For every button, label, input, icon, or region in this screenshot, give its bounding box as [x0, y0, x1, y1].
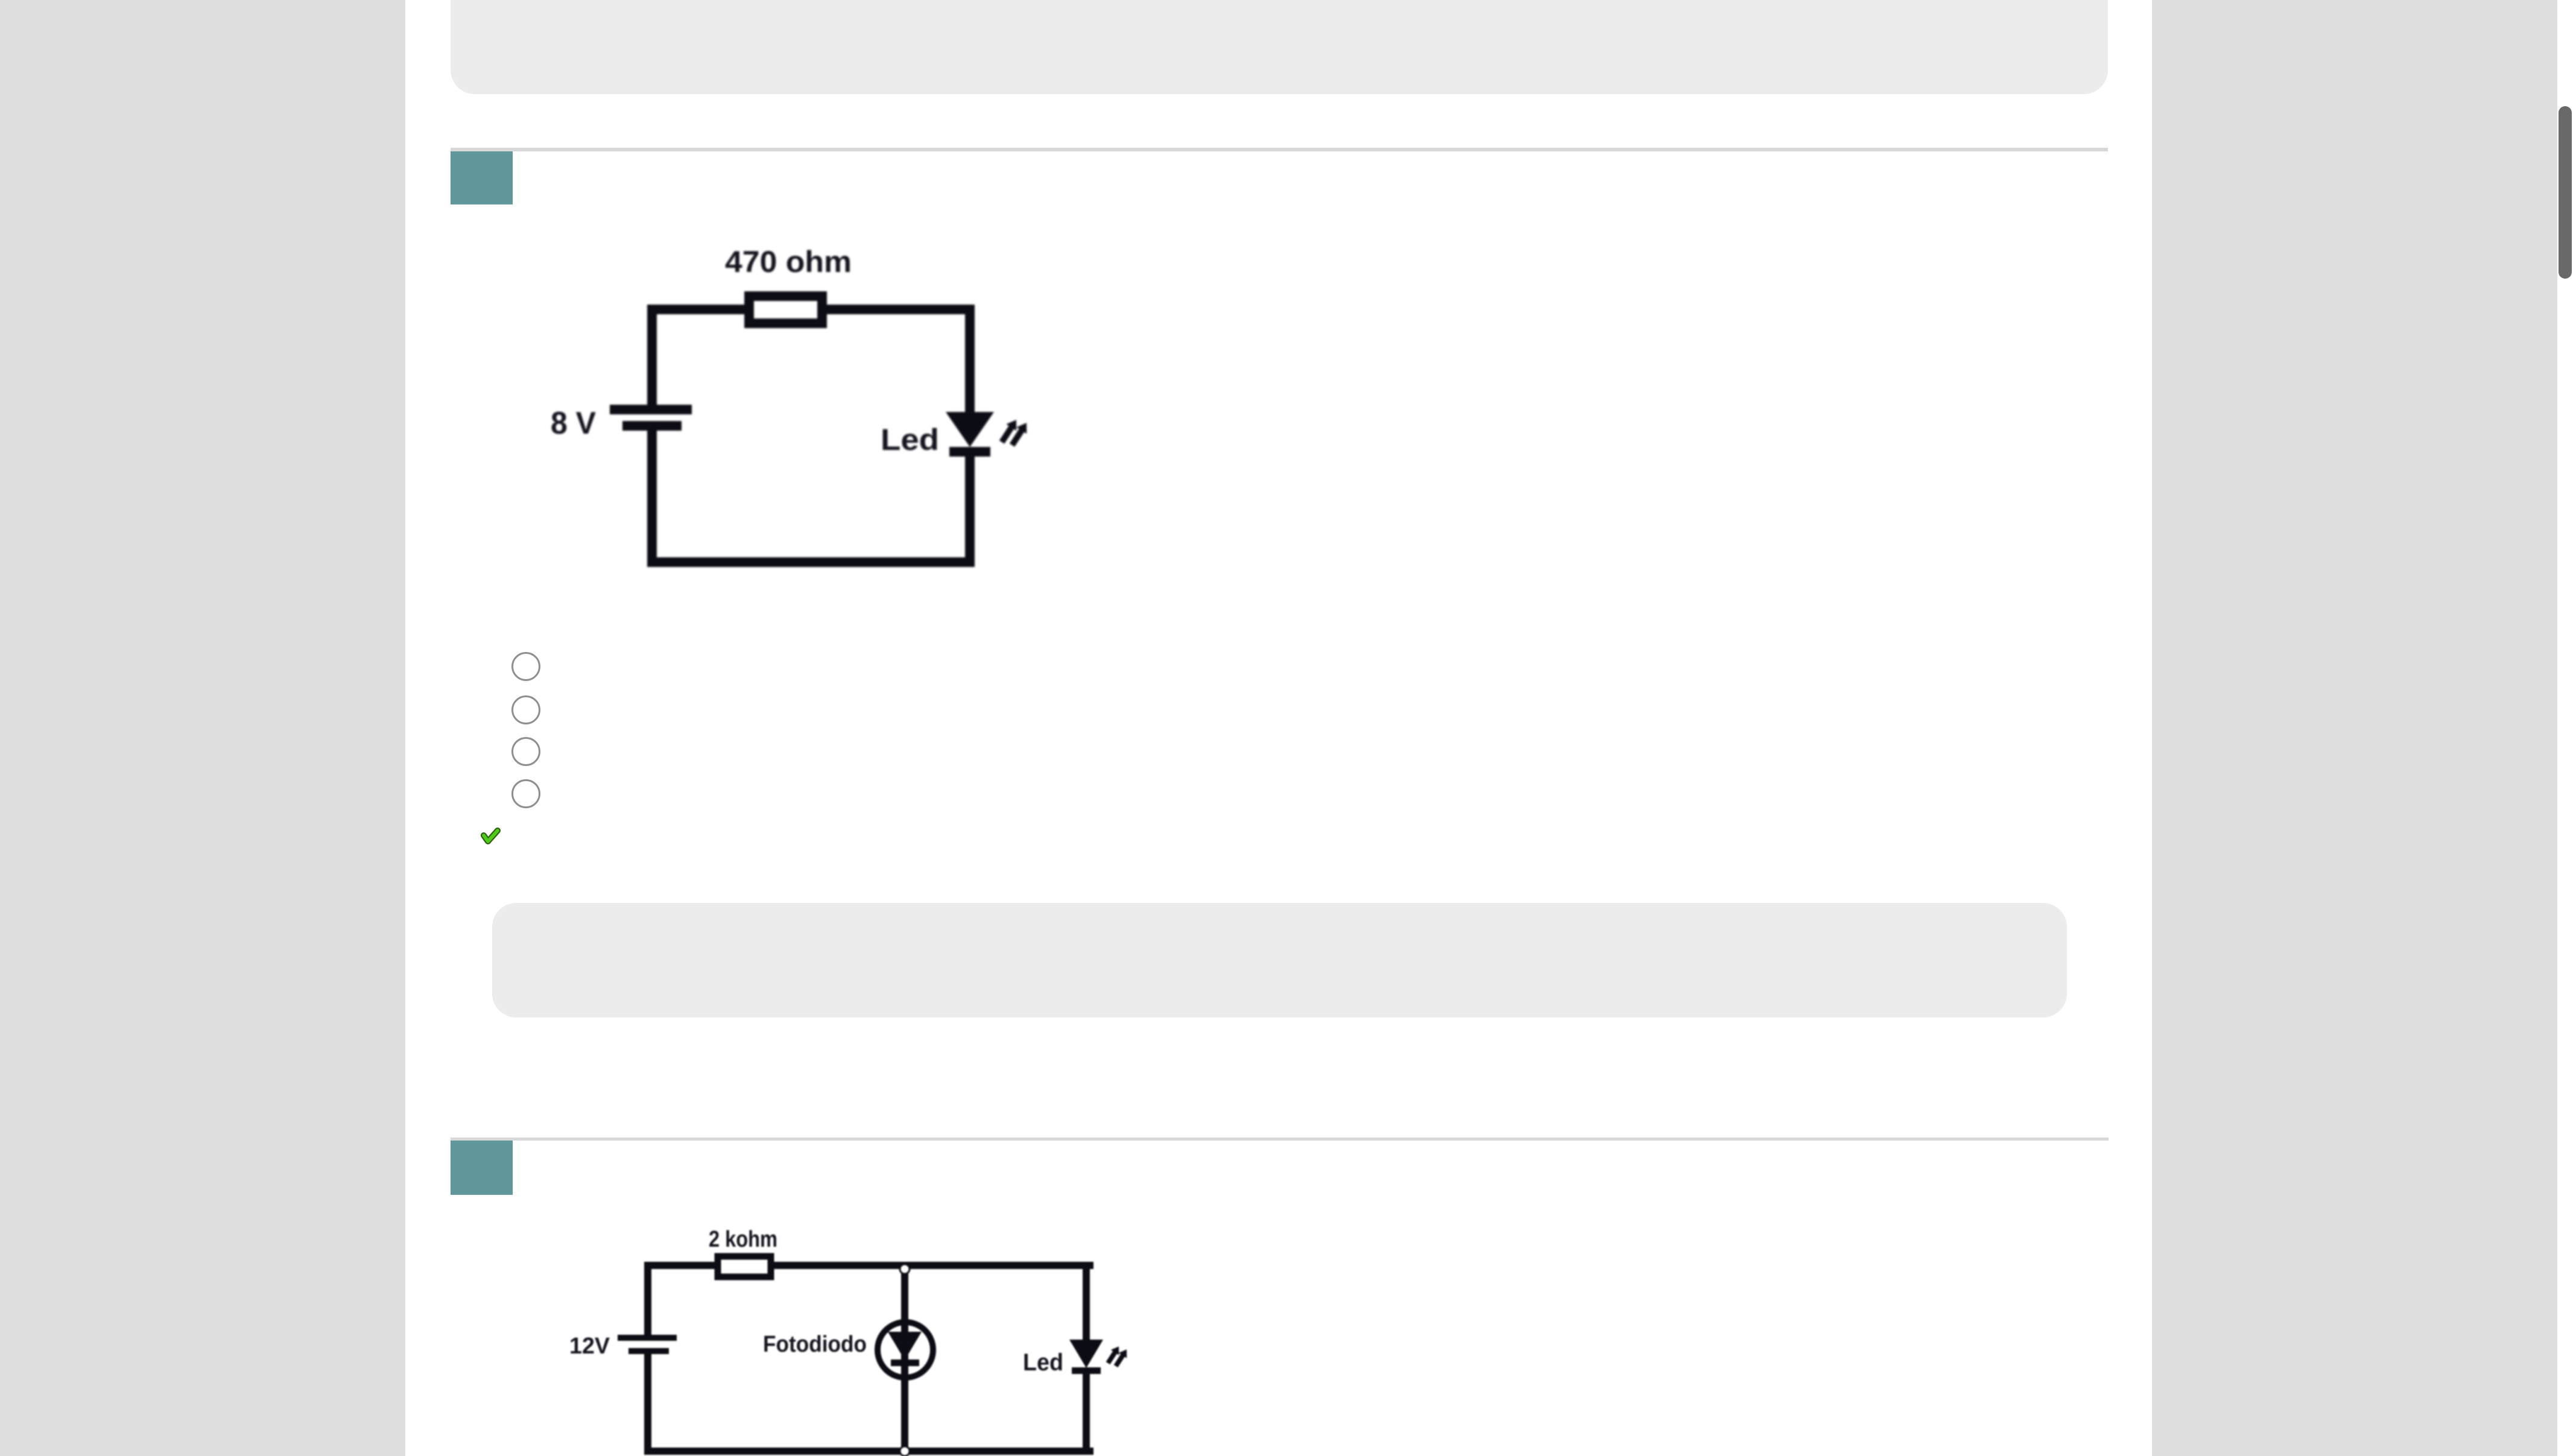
resistor 470 ohm	[749, 296, 822, 323]
photodiode circle	[878, 1322, 933, 1378]
svg-text:Led: Led	[881, 423, 939, 457]
svg-text:12V: 12V	[569, 1334, 610, 1359]
wire left lower	[647, 431, 657, 567]
circuit schematic 2	[561, 1218, 1164, 1456]
wire right upper	[1083, 1262, 1090, 1340]
svg-text:8 V: 8 V	[551, 406, 596, 441]
right gray gutter	[2152, 0, 2557, 1456]
teal question number square 2	[451, 1141, 513, 1195]
node junction top	[900, 1264, 910, 1274]
photodiode triangle	[888, 1332, 922, 1360]
scrollbar thumb	[2559, 106, 2572, 279]
node junction bottom	[900, 1446, 910, 1456]
battery B2 long plate	[618, 1335, 677, 1341]
teal question number square 1	[451, 151, 513, 204]
radio option 3	[511, 737, 540, 766]
wire middle vertical	[901, 1262, 908, 1455]
top gray info box (cut off at top)	[451, 0, 2108, 94]
svg-text:2 kohm: 2 kohm	[709, 1227, 777, 1252]
separator line 1	[451, 148, 2108, 151]
LED D2 cathode bar	[1072, 1367, 1101, 1374]
wire top	[644, 1262, 1093, 1269]
separator line 2	[451, 1138, 2109, 1141]
green correct checkmark	[481, 828, 501, 846]
radio option 2	[511, 695, 540, 724]
radio option 1	[511, 652, 540, 681]
feedback gray box	[492, 903, 2067, 1018]
LED D2 light arrow b	[1112, 1347, 1130, 1369]
LED D1 light arrow a	[997, 417, 1022, 446]
resistor 2 kohm	[718, 1256, 771, 1277]
wire bottom	[644, 1448, 1093, 1455]
wire right lower	[1083, 1374, 1090, 1455]
svg-text:470 ohm: 470 ohm	[725, 245, 852, 279]
wire left lower	[644, 1354, 651, 1455]
wire top	[647, 305, 975, 314]
wire left upper	[644, 1262, 651, 1335]
LED D1 light arrow b	[1007, 420, 1032, 449]
radio option 4	[511, 779, 540, 808]
LED D1 cathode bar	[949, 447, 990, 457]
battery B1 long plate	[610, 405, 692, 414]
wire right upper	[965, 305, 975, 412]
scrollbar track	[2557, 0, 2573, 1456]
LED D1 triangle	[946, 412, 994, 447]
wire left upper	[647, 305, 657, 405]
battery B2 short plate	[628, 1348, 669, 1354]
circuit schematic 1	[537, 235, 1043, 585]
svg-text:Fotodiodo: Fotodiodo	[763, 1332, 867, 1357]
photodiode cathode bar	[891, 1359, 919, 1366]
LED D2 light arrow a	[1104, 1344, 1122, 1366]
wire right lower	[965, 457, 975, 567]
left gray gutter	[0, 0, 405, 1456]
wire bottom	[647, 557, 975, 567]
svg-text:Led: Led	[1023, 1349, 1063, 1376]
battery B1 short plate	[622, 421, 682, 431]
LED D2 triangle	[1069, 1340, 1103, 1368]
